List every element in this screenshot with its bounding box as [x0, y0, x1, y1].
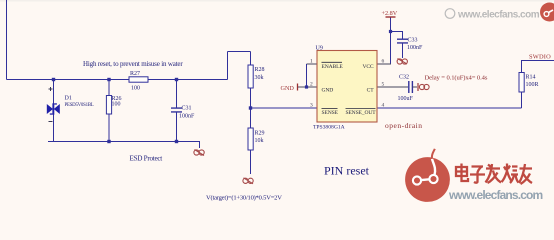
wire: D1 bottom connection — [53, 114, 55, 142]
wire: up to R14 bottom — [521, 92, 523, 108]
wire: main horizontal bus (right of R27) — [148, 79, 228, 81]
wire: VCC rail down to pin 6 — [390, 17, 392, 64]
char you — [519, 164, 532, 184]
diode D1 (TVS PESD5V0S1BL) — [47, 87, 94, 122]
svg-text:2: 2 — [310, 82, 313, 88]
wire: R14 top to SWDIO net — [522, 61, 554, 73]
svg-text:6: 6 — [382, 59, 385, 65]
svg-text:R29: R29 — [255, 131, 265, 137]
resistor R27 — [129, 71, 148, 92]
svg-text:10k: 10k — [255, 138, 264, 144]
svg-text:R14: R14 — [526, 75, 536, 81]
svg-text:SWDIO: SWDIO — [529, 54, 551, 61]
svg-text:www.elecfans.com: www.elecfans.com — [457, 10, 540, 21]
junction node at R26 top — [107, 78, 110, 81]
svg-text:Delay = 0.1(uF)x4= 0.4s: Delay = 0.1(uF)x4= 0.4s — [425, 75, 488, 82]
wire: left vertical drop from top edge — [6, 0, 8, 80]
resistor R28 — [248, 65, 265, 88]
resistor R26 — [106, 96, 121, 115]
svg-text:C33: C33 — [408, 38, 418, 44]
wire: R26 bottom connection — [108, 114, 110, 142]
svg-text:C32: C32 — [399, 75, 409, 81]
svg-text:30k: 30k — [255, 75, 264, 81]
wire: pin4 SENSE_OUT net — [377, 107, 522, 109]
IC U9 TPS3808 — [310, 46, 385, 131]
svg-text:TPS3808G1A: TPS3808G1A — [313, 125, 345, 131]
svg-text:GND: GND — [322, 87, 334, 93]
svg-text:GND: GND — [281, 85, 295, 92]
power +2.8V — [382, 10, 398, 17]
junction node at C31 top — [175, 78, 178, 81]
svg-text:High reset, to prevent misuse: High reset, to prevent misuse in water — [83, 60, 183, 68]
junction node at D1 top — [52, 78, 55, 81]
resistor R14 — [519, 73, 539, 93]
svg-text:C31: C31 — [182, 106, 192, 112]
svg-text:ESD Protect: ESD Protect — [130, 155, 163, 163]
pin 2 stub — [298, 86, 317, 88]
wire: C33 bottom to ground — [402, 43, 404, 58]
resistor R29 — [248, 128, 265, 150]
pin 1 stub — [307, 63, 318, 65]
svg-text:R27: R27 — [130, 71, 140, 77]
wire: C31 bottom connection — [176, 112, 178, 141]
ground symbol below R29 — [243, 178, 253, 184]
svg-text:www.elecfans.com: www.elecfans.com — [448, 188, 543, 202]
capacitor C31 — [171, 106, 195, 120]
wire: bottom ground rail — [48, 142, 200, 149]
watermark: 电子发烧友 characters — [456, 164, 532, 185]
power GND symbol at pin 2 — [281, 84, 298, 93]
junction node at pin1/pin2 tie — [305, 85, 308, 88]
svg-text:U9: U9 — [316, 46, 323, 52]
svg-text:+2.8V: +2.8V — [382, 10, 398, 17]
svg-text:3: 3 — [310, 103, 313, 109]
capacitor C33 — [397, 38, 423, 52]
svg-text:CT: CT — [367, 87, 375, 93]
ground symbol below C33 — [397, 59, 407, 65]
junction node at R26 bottom — [107, 140, 110, 143]
D1 minus mark — [49, 121, 53, 123]
wire: branch to C33 — [391, 32, 403, 39]
svg-text:VCC: VCC — [362, 64, 373, 70]
svg-text:R28: R28 — [255, 67, 265, 73]
capacitor C32 — [398, 75, 418, 103]
watermark: bottom-right elecfans logo disc — [405, 149, 450, 202]
wire: top jog to R28 — [228, 51, 251, 53]
wire: pin1 tie-down to GND — [306, 64, 308, 87]
wire: R26 top connection — [108, 80, 110, 96]
junction node at R28/R29/SENSE — [249, 106, 252, 109]
watermark: corner red logo — [540, 3, 554, 22]
svg-text:100: 100 — [112, 102, 121, 108]
wire: down to R28 top — [250, 52, 252, 66]
svg-text:open-drain: open-drain — [385, 121, 423, 130]
svg-text:5: 5 — [382, 82, 385, 88]
svg-text:100R: 100R — [526, 82, 539, 88]
wire: SENSE net to pin 3 — [251, 107, 318, 109]
svg-text:PESD5V0S1BL: PESD5V0S1BL — [65, 103, 94, 108]
svg-text:100: 100 — [131, 86, 140, 92]
D1 plus mark — [49, 87, 53, 91]
wire: riser at x=227 — [227, 52, 229, 80]
junction node at C31 bottom — [175, 140, 178, 143]
svg-text:100nF: 100nF — [407, 45, 423, 51]
svg-text:100nF: 100nF — [179, 114, 195, 120]
char zi — [470, 167, 485, 183]
ground symbol right of C32 — [418, 83, 429, 91]
svg-text:D1: D1 — [65, 96, 72, 102]
svg-text:SENSE: SENSE — [322, 110, 339, 116]
svg-text:ENABLE: ENABLE — [322, 64, 344, 70]
svg-text:4: 4 — [382, 103, 385, 109]
pin 6 stub — [377, 63, 391, 65]
svg-text:V(target)=(1+30/10)*0.5V=2V: V(target)=(1+30/10)*0.5V=2V — [206, 195, 282, 202]
wire: D1 top connection — [53, 80, 55, 105]
wire: C31 top connection — [176, 80, 178, 108]
ground symbol at bottom rail — [194, 150, 204, 156]
pin 5 stub to C32 — [377, 86, 408, 88]
wire: R29 bottom to ground — [250, 150, 252, 174]
wire: R28 bottom to R29 top — [250, 88, 252, 128]
svg-text:100uF: 100uF — [398, 96, 414, 102]
svg-text:SENSE_OUT: SENSE_OUT — [345, 110, 376, 116]
char fa — [486, 164, 502, 183]
char dian — [456, 164, 468, 182]
svg-text:PIN reset: PIN reset — [324, 164, 370, 178]
junction node on VCC rail — [389, 30, 392, 33]
svg-text:1: 1 — [310, 59, 313, 65]
char shao — [502, 164, 519, 184]
wire: main horizontal bus (left of R27) — [7, 79, 130, 81]
watermark: top-right www.elecfans.com — [445, 3, 554, 22]
